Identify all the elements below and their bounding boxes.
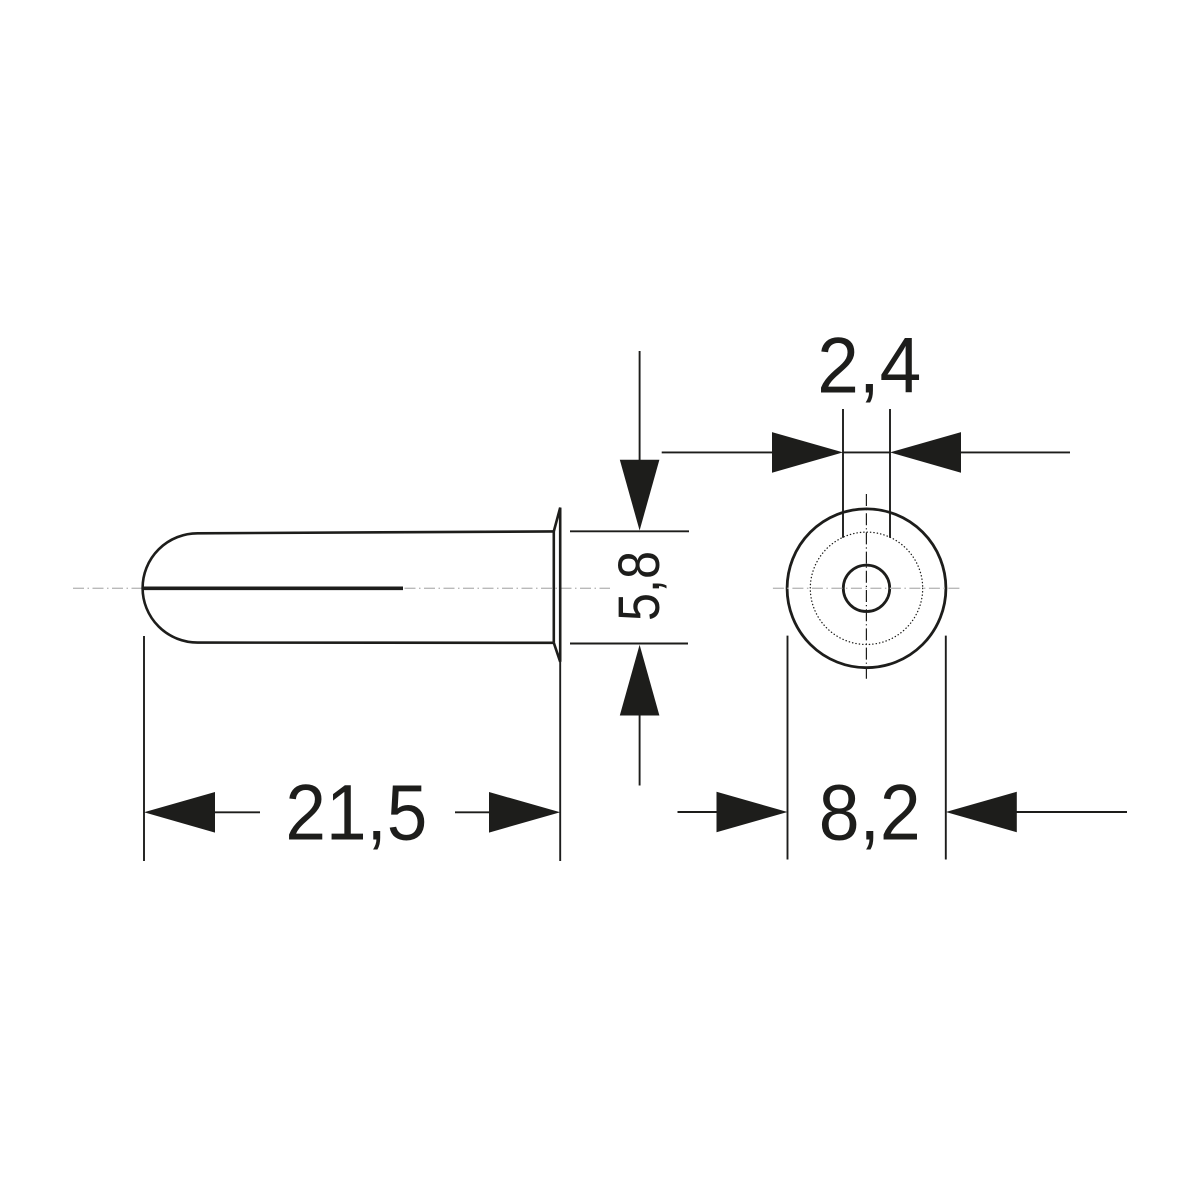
dim 2,4 inner segment [843,451,890,453]
slot line [143,586,403,590]
dim 8,2 right tail [1016,811,1127,813]
svg-text:5,8: 5,8 [607,551,672,621]
front view hole circle [843,565,889,611]
dim 5,8 top extension line [570,530,689,532]
dim 21,5 right extension line [559,662,561,861]
svg-text:21,5: 21,5 [285,769,427,857]
dim 21,5 left arrow [144,792,215,833]
front view horizontal centerline [773,587,961,589]
dim 2,4 right arrow [890,432,961,473]
front view dotted circle [810,532,922,644]
dim 5,8 upper leader line [639,351,641,460]
side view centerline [73,587,610,589]
dim 2,4 left tail [662,451,773,453]
front view vertical centerline [865,494,867,681]
dim 5,8 lower arrow [620,645,660,716]
dim 2,4 left arrow [772,432,843,473]
dim 2,4 right extension line [889,409,891,538]
dim 21,5 left tail [214,811,260,813]
dim 21,5 left extension line [143,636,145,861]
pin body outline [143,531,554,642]
dim 5,8 lower leader line [639,715,641,786]
dim 21,5 right arrow [489,792,560,833]
dim 21,5 right tail [455,811,490,813]
dim 8,2 right extension line [945,636,947,860]
flange cone base [552,531,555,642]
flange head outline [554,508,560,662]
dim 2,4 right tail [960,451,1070,453]
dim 5,8 bottom extension line [570,643,688,645]
front view outer circle [787,509,946,668]
dim 8,2 left tail [678,811,718,813]
svg-text:2,4: 2,4 [817,322,921,410]
dim 5,8 upper arrow [620,460,660,531]
dim 8,2 right arrow [946,792,1017,833]
dim 2,4 left extension line [842,409,844,538]
dim 8,2 left arrow [717,792,788,833]
dim 8,2 left extension line [787,636,789,860]
svg-text:8,2: 8,2 [819,769,921,857]
